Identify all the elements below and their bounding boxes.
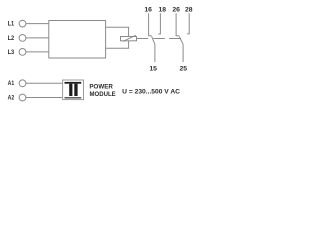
svg-text:POWER: POWER	[89, 84, 113, 90]
contact 1 common line 15	[154, 44, 156, 62]
wire A1 to power module	[26, 82, 63, 84]
power module icon right bar	[74, 84, 77, 96]
svg-text:26: 26	[172, 7, 180, 14]
terminal circle A2	[19, 94, 26, 101]
relay drive diagonal	[123, 35, 136, 41]
wire L2 to module	[26, 37, 49, 39]
terminal circle L3	[19, 49, 26, 56]
relay drive box	[121, 37, 137, 41]
contact 2 NC line 26 with foot	[176, 13, 179, 35]
power module icon top lid	[65, 82, 82, 84]
wire A2 to power module	[26, 97, 63, 99]
terminal circle A1	[19, 80, 26, 87]
svg-text:15: 15	[149, 65, 157, 72]
power module box	[63, 80, 84, 100]
svg-text:U = 230...500 V AC: U = 230...500 V AC	[122, 88, 180, 95]
contact 2 common line 25	[182, 44, 184, 62]
terminal circle L1	[19, 20, 26, 27]
wire L1 to module	[26, 23, 49, 25]
power module icon bottom lid	[65, 97, 82, 98]
contact 1 NO line 18 with foot	[158, 13, 160, 34]
contact 1 NC line 16 with foot	[149, 13, 152, 35]
power module icon left bar	[69, 84, 72, 96]
svg-text:L3: L3	[8, 49, 15, 56]
contact 2 lever	[179, 36, 183, 44]
mechanical link dashed line	[137, 37, 182, 39]
svg-text:L2: L2	[8, 35, 15, 42]
svg-text:L1: L1	[8, 21, 15, 28]
wire module output bottom	[106, 41, 129, 49]
svg-text:A1: A1	[8, 80, 15, 87]
svg-text:18: 18	[159, 7, 167, 14]
wire module output top	[106, 27, 129, 36]
svg-text:25: 25	[180, 65, 188, 72]
contact 1 lever	[152, 36, 155, 44]
monitoring module body	[49, 21, 106, 59]
svg-text:16: 16	[144, 7, 152, 14]
contact 2 NO line 28 with foot	[187, 13, 189, 34]
wire L3 to module	[26, 51, 49, 53]
svg-text:28: 28	[185, 7, 193, 14]
terminal circle L2	[19, 35, 26, 42]
svg-text:A2: A2	[8, 94, 15, 101]
svg-text:MODULE: MODULE	[90, 92, 116, 98]
